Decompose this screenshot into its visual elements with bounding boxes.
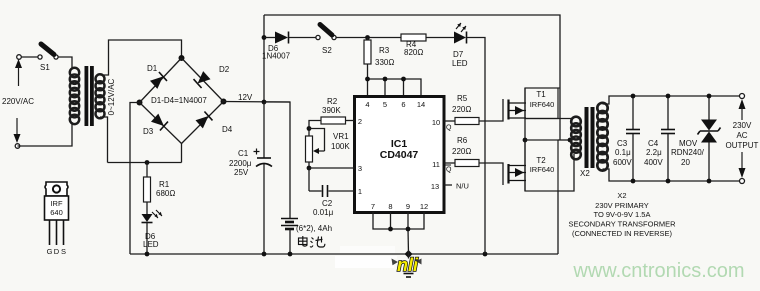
switch S2 [316,35,320,39]
svg-text:1N4007: 1N4007 [262,52,291,61]
svg-text:640: 640 [50,208,63,217]
wire top rail [264,15,560,140]
node bridge top [179,55,185,61]
transformer X1 secondary winding [96,74,105,83]
node [405,250,413,258]
svg-text:0.01μ: 0.01μ [313,208,334,217]
node [145,252,150,257]
wire bottom vertex drop [181,144,183,163]
wire [18,122,73,146]
wire ground rail [130,253,558,255]
svg-text:LED: LED [143,240,159,249]
AC input terminal top [17,55,22,60]
IRF640 package outline [45,182,68,196]
svg-text:820Ω: 820Ω [404,48,423,57]
wire [130,103,140,255]
wire pin7-12 bus [373,212,424,229]
node bridge right [221,99,227,105]
ground [408,254,410,269]
wire output top rail [603,96,743,104]
svg-text:600V: 600V [613,158,632,167]
node [383,77,388,82]
svg-text:R3: R3 [379,46,390,55]
svg-text:13: 13 [431,182,439,191]
wire T1 drain to X2 [525,118,572,120]
wire [21,56,38,58]
op-amp U1 IC1 CD4047 box [355,97,445,213]
svg-text:D3: D3 [143,127,154,136]
node [388,227,393,232]
wire T2 top to tap [558,139,570,141]
svg-text:R1: R1 [159,180,170,189]
svg-text:IRF: IRF [50,199,63,208]
svg-text:3: 3 [358,164,362,173]
wire negative bus [108,162,182,164]
svg-text:nli: nli [397,255,419,275]
svg-text:MOV: MOV [679,139,698,148]
node [666,94,671,99]
wire pin3 [309,167,355,169]
svg-text:12V: 12V [238,93,253,102]
svg-text:RDN240/: RDN240/ [671,148,705,157]
svg-text:0.1μ: 0.1μ [615,148,631,157]
wire 12V vertical [263,15,265,102]
AC input up arrow [15,59,22,68]
wire [426,37,454,39]
resistor R4 [401,34,426,41]
svg-text:SECONDARY TRANSFORMER: SECONDARY TRANSFORMER [568,220,676,229]
node [288,252,293,257]
svg-text:D7: D7 [453,50,464,59]
transformer X1 primary winding [70,68,79,77]
svg-text:9: 9 [406,202,410,211]
transformer X1 core [85,66,89,126]
battery 12V [281,219,298,230]
watermark nli [394,259,421,272]
svg-text:G: G [47,247,53,256]
transformer X2 core [585,107,589,168]
node [262,252,267,257]
node [307,126,312,131]
output terminal top [740,94,745,99]
svg-text:330Ω: 330Ω [375,58,394,67]
resistor R5 [455,118,479,125]
wire T1T2 link [524,88,526,191]
svg-text:D4: D4 [222,125,233,134]
svg-text:11: 11 [432,160,440,169]
svg-text:D1: D1 [147,64,158,73]
svg-text:T1: T1 [536,90,546,99]
svg-text:S1: S1 [40,63,50,72]
svg-text:LED: LED [452,59,468,68]
LED D6 [142,214,153,222]
svg-text:230V PRIMARY: 230V PRIMARY [595,201,649,210]
svg-text:1: 1 [358,187,362,196]
svg-text:IRF640: IRF640 [530,100,555,109]
svg-text:OUTPUT: OUTPUT [726,141,759,150]
svg-text:390K: 390K [322,106,341,115]
svg-text:14: 14 [417,100,425,109]
transistor T1 box [525,88,558,119]
svg-text:(CONNECTED IN REVERSE): (CONNECTED IN REVERSE) [572,229,673,238]
svg-text:D1-D4=1N4007: D1-D4=1N4007 [151,96,207,105]
potentiometer VR1 [306,136,313,162]
svg-text:6: 6 [401,100,405,109]
watermark haze [335,256,397,268]
svg-text:2: 2 [358,117,362,126]
output arrow up [739,99,746,109]
resistor R6 [455,160,479,167]
wire [467,38,486,255]
IRF640 package legs [50,220,64,245]
svg-text:20: 20 [681,158,690,167]
transistor T2 symbol [507,164,509,184]
wire bridge edge BR [182,102,224,144]
node [483,252,488,257]
svg-text:VR1: VR1 [333,132,349,141]
wire [308,168,310,191]
svg-text:www.cntronics.com: www.cntronics.com [572,260,744,282]
node X2 center tap [568,138,573,143]
LED D7 [454,32,466,44]
node bridge left [137,100,143,106]
node [262,100,267,105]
svg-text:220Ω: 220Ω [452,147,471,156]
svg-text:C4: C4 [648,139,659,148]
svg-text:220Ω: 220Ω [452,105,471,114]
wire pin11 [444,162,455,164]
capacitor C3 [632,96,634,129]
node [707,179,712,184]
node [631,94,636,99]
label battery chinese [299,236,325,247]
svg-text:X2: X2 [617,191,626,200]
wire 12V line [224,101,291,104]
wire [58,57,72,69]
svg-text:R6: R6 [457,136,468,145]
transistor T2 box [525,140,558,191]
node [145,160,150,165]
wire T2 source to gnd [557,191,559,254]
svg-text:N/U: N/U [456,182,469,191]
svg-text:2200μ: 2200μ [229,159,252,168]
node [707,94,712,99]
wire bridge edge TR [182,58,224,102]
svg-text:10: 10 [432,118,440,127]
output terminal bottom [740,179,745,184]
diode D4 [195,112,212,129]
output arrow down [741,152,743,170]
node [307,166,312,171]
svg-text:R2: R2 [327,97,338,106]
svg-text:400V: 400V [644,158,663,167]
transformer X2 left winding [571,117,581,127]
svg-text:12: 12 [420,202,428,211]
node [406,227,411,232]
svg-text:Q: Q [446,125,452,132]
svg-text:0~12V/AC: 0~12V/AC [107,78,116,115]
svg-text:R5: R5 [457,94,468,103]
wire [100,117,108,163]
wire [336,37,401,39]
svg-text:680Ω: 680Ω [156,189,175,198]
svg-text:C2: C2 [322,199,333,208]
node [365,35,370,40]
wire bridge edge TL [140,58,182,103]
svg-text:220V/AC: 220V/AC [2,97,34,106]
svg-text:D2: D2 [219,65,230,74]
diode D1 [150,72,167,89]
node [401,77,406,82]
wire pin10 [444,120,455,122]
svg-text:T2: T2 [536,156,546,165]
wire [100,40,182,75]
svg-text:X2: X2 [580,169,590,178]
wire pin4-6 bus [368,79,422,97]
resistor R2 [346,120,355,122]
transistor T1 symbol [507,100,509,120]
svg-text:AC: AC [736,131,747,140]
resistor R1 [146,163,148,178]
AC input terminal bottom [15,144,20,149]
svg-text:7: 7 [371,202,375,211]
svg-text:Q: Q [446,167,452,174]
svg-text:D: D [54,247,60,256]
wire output bottom rail [603,169,743,181]
svg-text:(6*2), 4Ah: (6*2), 4Ah [296,224,332,233]
wire T2 drain to X2 [558,154,574,191]
capacitor C1 [263,102,265,158]
capacitor C4 [667,96,669,129]
svg-text:C1: C1 [238,149,249,158]
svg-text:5: 5 [383,100,387,109]
wire pin13 [444,184,452,186]
capacitor C2 [309,190,322,192]
varistor MOV [708,96,710,120]
svg-text:IRF640: IRF640 [530,165,555,174]
svg-text:S2: S2 [322,46,332,55]
svg-text:25V: 25V [234,168,249,177]
AC input down arrow [16,118,18,135]
node [365,77,370,82]
node [631,179,636,184]
wire [479,163,503,185]
wire [479,99,503,121]
svg-text:TO 9V-0-9V 1.5A: TO 9V-0-9V 1.5A [594,210,651,219]
diode D3 [151,113,168,130]
diode D5 [264,37,275,39]
transformer X2 right winding [597,103,607,113]
svg-text:2.2μ: 2.2μ [646,148,662,157]
node [262,35,267,40]
svg-text:CD4047: CD4047 [380,149,419,161]
node [523,138,528,143]
svg-text:8: 8 [388,202,392,211]
svg-text:100K: 100K [331,142,350,151]
svg-text:S: S [61,247,66,256]
svg-text:4: 4 [365,100,369,109]
diode D2 [194,71,211,88]
switch S1 [38,55,42,59]
svg-text:230V: 230V [733,121,752,130]
resistor R3 [367,38,369,41]
wire bridge edge BL [140,103,182,144]
wire [264,102,290,218]
node [666,179,671,184]
svg-text:C3: C3 [617,139,628,148]
